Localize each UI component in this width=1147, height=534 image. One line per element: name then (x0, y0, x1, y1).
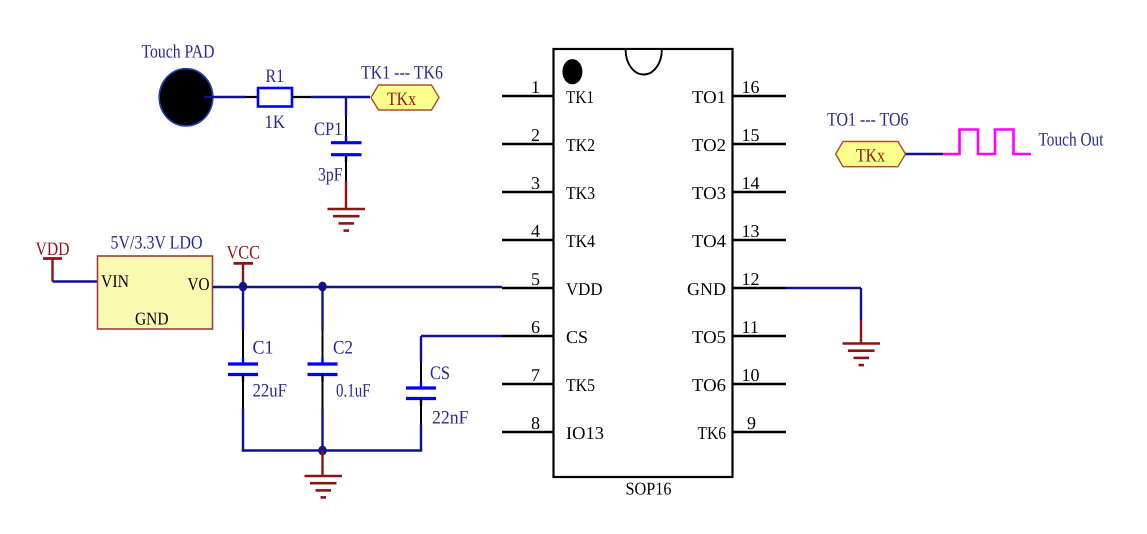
svg-text:SOP16: SOP16 (626, 479, 672, 499)
pin 16 TO1 (692, 77, 786, 107)
svg-text:12: 12 (742, 269, 760, 289)
svg-text:1K: 1K (265, 112, 286, 133)
ground (CP1) (328, 209, 366, 231)
svg-text:R1: R1 (266, 66, 285, 87)
svg-text:7: 7 (531, 365, 540, 385)
power symbol VCC (227, 243, 261, 288)
svg-text:TO3: TO3 (692, 183, 726, 203)
wire C1 to bottom rail (242, 375, 244, 452)
pin 2 TK2 (502, 125, 595, 155)
svg-text:IO13: IO13 (566, 423, 604, 443)
wire node to C2 (321, 287, 323, 362)
wire CS to bottom rail (420, 399, 422, 451)
pin 14 TO3 (692, 173, 786, 203)
IC U1 body (554, 49, 733, 477)
waveform touch out signal (943, 130, 1031, 155)
svg-text:TO2: TO2 (692, 135, 726, 155)
capacitor C1 (228, 338, 287, 402)
junction node bottom rail (318, 446, 326, 456)
svg-text:TK1: TK1 (566, 87, 594, 107)
pin 8 IO13 (502, 413, 604, 443)
svg-text:8: 8 (531, 413, 540, 433)
svg-text:TK1 --- TK6: TK1 --- TK6 (361, 63, 443, 84)
pin 3 TK3 (502, 173, 595, 203)
svg-text:TO5: TO5 (692, 327, 726, 347)
svg-text:22uF: 22uF (253, 381, 288, 402)
ground (pin 12) (843, 344, 881, 366)
svg-text:TK5: TK5 (566, 375, 595, 395)
port TKx (left) (371, 85, 439, 110)
svg-text:11: 11 (742, 317, 759, 337)
capacitor CS (406, 363, 469, 429)
svg-text:GND: GND (687, 279, 726, 299)
svg-text:VIN: VIN (101, 271, 129, 291)
svg-text:VCC: VCC (227, 243, 261, 264)
svg-text:VDD: VDD (36, 239, 70, 260)
wire VO rail to pin 5 (213, 286, 503, 288)
svg-text:TK4: TK4 (566, 231, 595, 251)
wire C2 to bottom rail (322, 375, 324, 451)
svg-text:TO1: TO1 (692, 87, 726, 107)
pin 6 CS (502, 317, 588, 347)
pin 5 VDD (502, 269, 603, 299)
svg-text:Touch PAD: Touch PAD (142, 42, 215, 63)
wire R1 to node A (292, 96, 370, 98)
svg-text:0.1uF: 0.1uF (336, 381, 371, 402)
svg-text:Touch Out: Touch Out (1039, 130, 1105, 151)
svg-text:TO6: TO6 (692, 375, 726, 395)
ground (bottom rail) (305, 476, 343, 497)
svg-text:TO4: TO4 (692, 231, 726, 251)
capacitor C2 (308, 338, 371, 402)
wire rail to ground (321, 451, 323, 477)
svg-text:TK2: TK2 (566, 135, 595, 155)
resistor R1 (258, 66, 292, 133)
svg-text:CP1: CP1 (314, 119, 343, 140)
wire node to C1 (242, 287, 244, 362)
svg-text:TO1 --- TO6: TO1 --- TO6 (827, 110, 909, 131)
svg-text:3pF: 3pF (318, 165, 343, 186)
svg-text:TKx: TKx (387, 89, 416, 110)
pin 7 TK5 (502, 365, 595, 395)
pin 1 TK1 (502, 77, 594, 107)
pin 11 TO5 (692, 317, 786, 347)
svg-text:VDD: VDD (566, 279, 603, 299)
svg-text:6: 6 (531, 317, 540, 337)
wire pin 12 to ground (786, 288, 861, 344)
wire node A to CP1 (345, 97, 347, 141)
svg-text:3: 3 (531, 173, 540, 193)
touch pad P1 (159, 69, 213, 126)
svg-text:C2: C2 (333, 338, 353, 359)
junction node C2 (318, 282, 326, 292)
svg-text:5V/3.3V LDO: 5V/3.3V LDO (111, 233, 203, 254)
svg-text:VO: VO (188, 274, 210, 294)
capacitor CP1 (314, 119, 362, 186)
pin 9 TK6 (698, 413, 787, 443)
svg-text:2: 2 (531, 125, 540, 145)
pin 13 TO4 (692, 221, 786, 251)
svg-text:GND: GND (135, 309, 169, 329)
svg-text:16: 16 (742, 77, 760, 97)
wire CP1 to ground (345, 156, 347, 209)
pin 12 GND (687, 269, 786, 299)
wire VDD to VIN (53, 280, 98, 282)
wire TKx to waveform (906, 153, 944, 156)
svg-text:1: 1 (531, 77, 540, 97)
pin 1 marker dot (562, 59, 582, 84)
svg-text:TK3: TK3 (566, 183, 595, 203)
svg-text:15: 15 (742, 125, 760, 145)
wire pad to R1 (204, 96, 258, 98)
pin 10 TO6 (692, 365, 786, 395)
svg-text:4: 4 (531, 221, 540, 241)
wire bottom rail (242, 449, 422, 451)
svg-text:TK6: TK6 (698, 423, 727, 443)
junction node VCC/C1 (239, 282, 247, 292)
svg-text:CS: CS (430, 363, 450, 384)
port TKx (right) (836, 142, 906, 167)
power symbol VDD (36, 239, 70, 282)
svg-text:9: 9 (747, 413, 756, 433)
svg-text:14: 14 (742, 173, 760, 193)
wire CS pin to capacitor CS (421, 336, 502, 386)
svg-text:5: 5 (531, 269, 540, 289)
pin 4 TK4 (502, 221, 595, 251)
pin 15 TO2 (692, 125, 786, 155)
regulator U2 5V/3.3V LDO (98, 256, 213, 329)
svg-text:22nF: 22nF (432, 408, 469, 429)
svg-text:C1: C1 (253, 338, 274, 359)
svg-text:CS: CS (566, 327, 588, 347)
svg-text:10: 10 (742, 365, 760, 385)
svg-text:TKx: TKx (856, 146, 885, 167)
svg-text:13: 13 (742, 221, 760, 241)
